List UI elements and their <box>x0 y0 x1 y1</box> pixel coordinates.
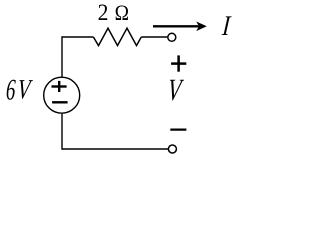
voltage source VS circle <box>44 77 80 113</box>
label 6 V <box>5 74 34 106</box>
wire left vertical bottom <box>61 114 63 150</box>
wire left vertical top <box>61 36 63 77</box>
current arrow <box>153 22 207 32</box>
svg-text:Ω: Ω <box>115 0 129 25</box>
wire top-left horizontal <box>62 36 93 38</box>
voltage source minus sign <box>52 101 68 103</box>
label minus (right) <box>170 129 186 131</box>
resistor R 2ohm zigzag <box>93 28 141 45</box>
label + (right) <box>171 55 186 71</box>
wire bottom horizontal <box>62 148 168 150</box>
terminal bottom (open circle) <box>168 145 176 153</box>
value label 2 ohm <box>98 0 129 25</box>
svg-text:2: 2 <box>98 0 109 25</box>
terminal top (open circle) <box>168 33 176 41</box>
voltage source plus sign <box>52 81 67 92</box>
wire resistor to top terminal <box>141 36 167 38</box>
